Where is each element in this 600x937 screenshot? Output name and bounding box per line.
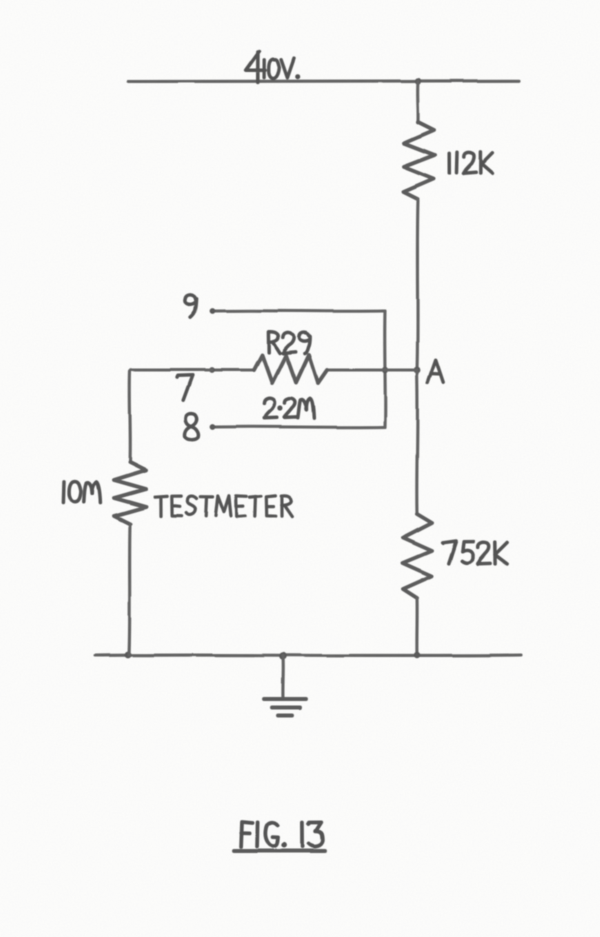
label FIG. 13 caption — [241, 822, 323, 848]
wire from 752K to bottom rail — [415, 598, 418, 655]
ground symbol — [264, 699, 306, 716]
label R29 designator — [268, 332, 310, 354]
wire terminal 8 to branch vertical — [214, 425, 385, 429]
resistor 10M testmeter — [114, 462, 146, 524]
caption underline — [234, 849, 325, 853]
label 752K value — [443, 542, 507, 565]
wire bottom ground rail — [95, 653, 521, 657]
wire terminal 7 to node A — [212, 368, 417, 371]
terminal dot 7 — [209, 367, 215, 373]
wire testmeter to bottom rail — [129, 524, 130, 655]
wire node A down to R 752K — [415, 370, 419, 514]
wire terminal 7 left and down to testmeter — [130, 370, 212, 462]
terminal dot 8 — [209, 424, 215, 430]
resistor 112K — [404, 122, 435, 199]
resistor R29 — [254, 355, 327, 383]
node junction bottom left — [125, 652, 132, 659]
wire from 112K down to node A — [417, 199, 418, 370]
label 112K value — [449, 152, 492, 174]
wire ground stub — [281, 656, 284, 699]
label 10M value — [63, 482, 100, 503]
resistor 752K — [403, 514, 432, 598]
wire top supply rail — [128, 79, 519, 83]
node A junction dot — [414, 367, 421, 374]
label TESTMETER — [155, 496, 293, 517]
label R29 value 2.2M — [264, 398, 314, 418]
node junction ground stub — [279, 652, 287, 660]
label terminal 8 — [185, 414, 199, 440]
wire from top rail to R 112K — [416, 81, 420, 122]
node junction on top rail — [415, 78, 421, 84]
label 410V supply — [246, 51, 301, 82]
node junction bottom right — [414, 652, 420, 658]
label terminal 7 — [177, 375, 193, 400]
label node A — [428, 360, 444, 383]
node junction branch wire at A level — [382, 367, 388, 373]
wire branch vertical 9 to 8 — [383, 311, 387, 427]
label terminal 9 — [185, 295, 197, 318]
wire terminal 9 to branch vertical — [216, 309, 385, 313]
terminal dot 9 — [210, 308, 216, 314]
